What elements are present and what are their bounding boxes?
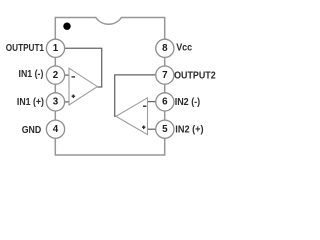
pin 8 circle [156, 39, 174, 57]
pin 2 circle [46, 66, 64, 84]
IC package U1 outline with index notch [55, 18, 164, 155]
pin 6 circle [156, 93, 174, 111]
pin 7 circle [156, 66, 174, 84]
op-amp A triangle [69, 68, 97, 105]
wire pin1 to op-amp A output [65, 48, 102, 87]
svg-text:IN2 (-): IN2 (-) [175, 97, 201, 108]
pin 5 circle [156, 120, 174, 138]
op-amp A non-inverting (+) mark [72, 94, 76, 98]
wire pin3 to op-amp A non-inverting input [65, 101, 69, 103]
svg-text:Vcc: Vcc [176, 42, 193, 53]
svg-text:5: 5 [162, 124, 168, 135]
svg-text:GND: GND [22, 125, 42, 136]
wire pin6 to op-amp B inverting input [148, 101, 156, 103]
svg-text:2: 2 [53, 70, 59, 81]
svg-text:IN2 (+): IN2 (+) [175, 125, 203, 136]
pin 1 index dot [63, 23, 70, 30]
wire pin5 to op-amp B non-inverting input [148, 128, 156, 130]
op-amp B non-inverting (+) mark [142, 125, 145, 129]
op-amp A inverting (-) mark [72, 76, 76, 78]
wire pin2 to op-amp A inverting input [65, 74, 69, 76]
svg-text:4: 4 [53, 124, 59, 135]
svg-text:IN1 (+): IN1 (+) [17, 97, 44, 108]
svg-text:IN1 (-): IN1 (-) [19, 69, 44, 80]
pin 3 circle [46, 93, 64, 111]
svg-text:3: 3 [53, 97, 59, 108]
wire pin7 to op-amp B output [115, 75, 156, 116]
op-amp B triangle [116, 98, 148, 135]
svg-text:6: 6 [162, 97, 168, 108]
pin 4 circle [46, 120, 64, 138]
svg-text:OUTPUT1: OUTPUT1 [6, 43, 45, 54]
svg-text:8: 8 [162, 43, 168, 54]
svg-text:7: 7 [162, 70, 168, 81]
op-amp B inverting (-) mark [143, 105, 146, 107]
svg-text:OUTPUT2: OUTPUT2 [174, 70, 216, 81]
svg-text:1: 1 [53, 43, 59, 54]
pin 1 circle [46, 39, 64, 57]
